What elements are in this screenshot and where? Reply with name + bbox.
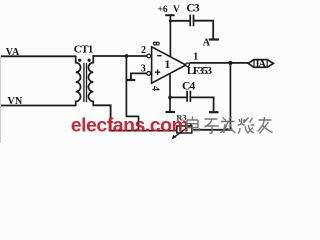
transformer polarity dot primary: [78, 59, 81, 62]
wire secondary top to pin2: [93, 55, 147, 57]
op-amp plus sign: [155, 70, 160, 75]
wire C4 right: [191, 97, 214, 111]
wire feedback rail left: [111, 130, 177, 132]
resistor R3 arrow: [174, 124, 192, 137]
watermark chinese chars: [187, 117, 273, 134]
wire pin4 down: [169, 74, 171, 111]
svg-text:4: 4: [149, 86, 160, 92]
wire VN: [1, 105, 76, 107]
ground bar pin4: [166, 111, 176, 113]
junction power branch: [169, 19, 172, 22]
resistor R3 body: [177, 126, 192, 133]
junction node pin2: [125, 54, 129, 58]
svg-text:+6: +6: [158, 5, 168, 15]
svg-text:LF353: LF353: [187, 65, 213, 77]
wire feedback up: [229, 63, 231, 130]
wire pin3: [131, 73, 147, 79]
svg-text:C4: C4: [182, 81, 196, 93]
svg-text:C3: C3: [186, 3, 200, 15]
transformer CT1 secondary winding: [88, 55, 93, 106]
op-amp input bubble pin3: [147, 72, 151, 76]
ground bar C4: [209, 111, 219, 113]
svg-text:CT1: CT1: [74, 44, 93, 56]
wire VA: [1, 55, 76, 57]
+6V terminal bar: [165, 14, 174, 16]
op-amp U1 triangle: [152, 47, 186, 83]
svg-text:A: A: [203, 37, 211, 48]
output flag IA: [248, 60, 273, 68]
op-amp input bubble pin2: [147, 54, 151, 58]
capacitor C3 plates: [190, 15, 193, 27]
svg-text:V: V: [173, 5, 180, 15]
ground bar pin3: [127, 79, 136, 81]
wire to C3: [170, 20, 189, 22]
wire to C4: [170, 96, 187, 98]
wire feedback drop from pin2 node: [126, 56, 138, 131]
junction C4 branch: [168, 96, 172, 100]
op-amp output bubble: [186, 63, 190, 67]
svg-text:2: 2: [141, 45, 146, 56]
op-amp minus sign: [157, 55, 161, 57]
left border faint: [0, 55, 2, 143]
output flag IA dividers: [254, 60, 267, 67]
wire C3 right: [194, 21, 213, 39]
transformer core lines: [83, 63, 85, 102]
capacitor C4 plates: [187, 91, 190, 102]
wire power pin8: [169, 15, 171, 57]
transformer CT1 primary winding: [76, 56, 81, 107]
svg-text:1: 1: [164, 57, 170, 71]
wire output: [189, 62, 248, 64]
junction output node: [228, 61, 232, 65]
ground bar A top: [209, 38, 219, 40]
transformer polarity dot secondary: [88, 59, 91, 62]
wire feedback rail right: [192, 129, 231, 131]
wire secondary bottom: [93, 105, 111, 130]
op-amp infinity symbol: [153, 42, 156, 45]
svg-text:1: 1: [193, 52, 198, 63]
svg-text:elecfans.com: elecfans.com: [71, 114, 189, 136]
